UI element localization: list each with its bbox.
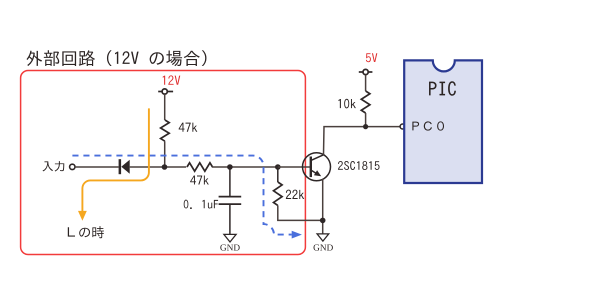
label 10k [338, 99, 355, 109]
signal path (blue dashed, to PC0) [72, 156, 291, 235]
label 0.1uF [184, 200, 218, 209]
input terminal circle [70, 164, 75, 169]
node E (R4/PC0 junction) [363, 124, 368, 129]
ground (Q1 emitter) [317, 234, 329, 241]
node D (emitter/R3) [320, 218, 326, 224]
signal path (orange, L case) [82, 108, 148, 211]
label 入力 (input) [43, 161, 65, 171]
resistor R4 10k (vertical) [361, 91, 370, 113]
wire R1 bottom to node A [164, 141, 166, 167]
wire D1 to node A [130, 166, 187, 168]
IC U1 PIC microcontroller [404, 60, 482, 183]
wire R4 to node E [365, 113, 367, 127]
pin label PC0 [412, 121, 444, 130]
diode D1 (cathode left) [119, 159, 130, 174]
wire 5V to R4 [365, 75, 367, 91]
wire R2 to node B [212, 166, 278, 168]
transistor Q1 2SC1815 (NPN) [303, 153, 331, 181]
wire node C to Q1 base [278, 166, 310, 168]
resistor R2 47k (horizontal) [187, 163, 213, 171]
node B (C1 junction) [227, 164, 233, 170]
wire 12V terminal to R1 [164, 94, 166, 120]
resistor R1 47k (vertical) [161, 120, 170, 141]
label Lの時 [68, 226, 104, 238]
label 47k (R2) [190, 175, 209, 184]
5V supply terminal [359, 69, 373, 74]
resistor R3 22k (vertical) [277, 167, 279, 182]
capacitor C1 0.1uF [219, 167, 242, 234]
label PIC [429, 81, 456, 95]
label 22k [286, 190, 304, 199]
label 12V [163, 75, 181, 84]
12V supply terminal [158, 89, 173, 94]
ground (C1) [224, 234, 236, 242]
PC0 pin terminal [400, 124, 405, 129]
external-circuit enclosure box [21, 71, 306, 255]
label 47k (R1) [179, 123, 198, 132]
wire R3 bottom to emitter node [278, 205, 323, 220]
wire Q1 emitter to ground [322, 179, 324, 234]
label 2SC1815 [338, 161, 380, 170]
label 5V [366, 53, 377, 62]
title 外部回路（12V の場合） [27, 50, 207, 66]
node A (R1/D1/R2 junction) [162, 164, 168, 170]
wire Q1 collector to PC0 line [324, 127, 401, 155]
node C (R3 junction) [275, 164, 281, 170]
wire input to D1 [75, 166, 119, 168]
